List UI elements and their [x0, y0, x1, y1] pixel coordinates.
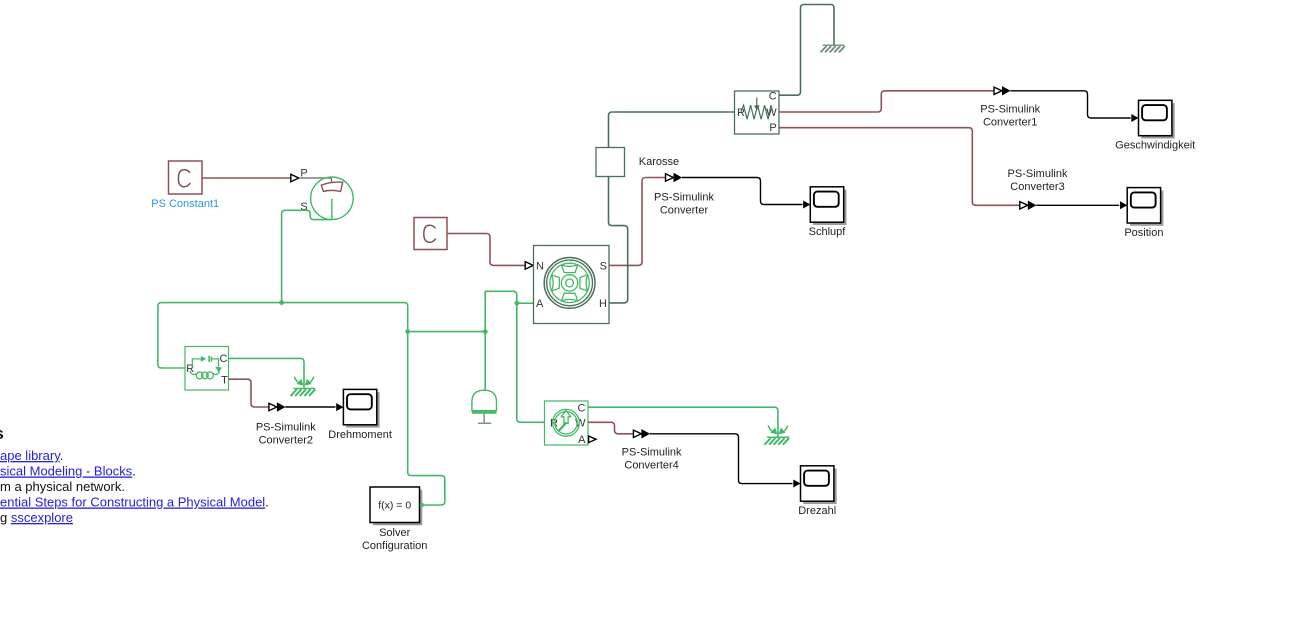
svg-text:C: C: [769, 91, 777, 103]
svg-text:ape library.: ape library.: [0, 448, 63, 463]
svg-text:Drehmoment: Drehmoment: [328, 429, 392, 441]
svg-text:Drezahl: Drezahl: [798, 505, 836, 517]
svg-text:H: H: [599, 298, 607, 310]
svg-text:Converter1: Converter1: [983, 117, 1037, 129]
svg-text:C: C: [578, 403, 586, 415]
svg-text:Converter: Converter: [660, 205, 709, 217]
svg-text:g sscexplore: g sscexplore: [0, 510, 73, 525]
svg-text:PS-Simulink: PS-Simulink: [256, 422, 316, 434]
svg-text:A: A: [536, 298, 544, 310]
svg-text:Karosse: Karosse: [639, 156, 679, 168]
svg-text:P: P: [300, 168, 307, 180]
svg-text:ential Steps for Constructing: ential Steps for Constructing a Physical…: [0, 495, 269, 510]
svg-text:PS-Simulink: PS-Simulink: [654, 192, 714, 204]
svg-text:PS-Simulink: PS-Simulink: [1008, 168, 1068, 180]
svg-text:A: A: [578, 434, 586, 446]
svg-text:m a physical network.: m a physical network.: [0, 479, 125, 494]
svg-text:PS Constant1: PS Constant1: [151, 198, 219, 210]
svg-text:R: R: [737, 107, 745, 119]
svg-text:T: T: [221, 375, 228, 387]
svg-text:sical Modeling - Blocks.: sical Modeling - Blocks.: [0, 464, 136, 479]
svg-text:Converter2: Converter2: [259, 435, 313, 447]
svg-text:S: S: [300, 201, 307, 213]
svg-text:Configuration: Configuration: [362, 540, 427, 552]
svg-text:Position: Position: [1124, 227, 1163, 239]
svg-text:R: R: [186, 363, 194, 375]
svg-text:PS-Simulink: PS-Simulink: [622, 447, 682, 459]
svg-text:PS-Simulink: PS-Simulink: [980, 104, 1040, 116]
svg-text:Geschwindigkeit: Geschwindigkeit: [1115, 140, 1195, 152]
svg-text:Schlupf: Schlupf: [809, 226, 847, 238]
svg-text:S: S: [600, 260, 607, 272]
svg-text:N: N: [536, 260, 544, 272]
svg-text:Solver: Solver: [379, 527, 411, 539]
svg-text:Converter3: Converter3: [1010, 181, 1064, 193]
svg-text:s: s: [0, 424, 4, 443]
svg-text:C: C: [220, 353, 228, 365]
svg-text:P: P: [769, 122, 776, 134]
svg-text:Converter4: Converter4: [624, 460, 678, 472]
svg-text:f(x) = 0: f(x) = 0: [378, 500, 411, 512]
